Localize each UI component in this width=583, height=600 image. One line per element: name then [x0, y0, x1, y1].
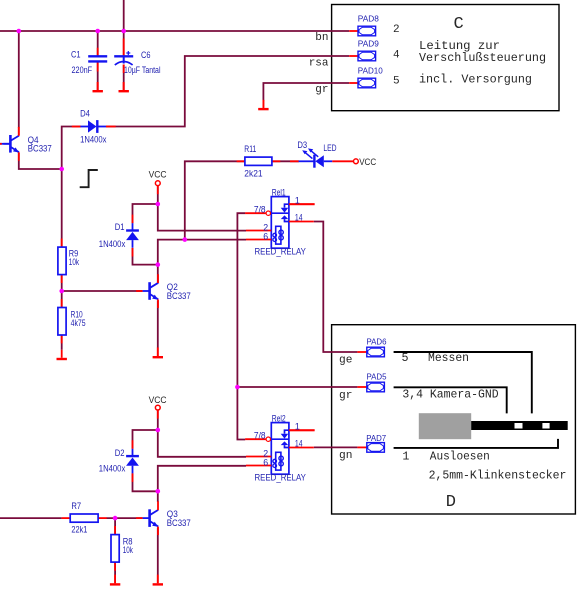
svg-text:Ausloesen: Ausloesen: [430, 450, 490, 464]
svg-text:D3: D3: [297, 140, 307, 150]
svg-text:1N400x: 1N400x: [99, 239, 126, 249]
svg-text:14: 14: [295, 439, 303, 449]
svg-text:4: 4: [393, 49, 400, 61]
svg-text:VCC: VCC: [359, 157, 376, 167]
svg-text:gr: gr: [339, 390, 352, 402]
svg-text:1N400x: 1N400x: [99, 464, 126, 474]
svg-text:rsa: rsa: [309, 58, 329, 70]
svg-text:bn: bn: [315, 32, 328, 44]
svg-text:D2: D2: [115, 448, 125, 458]
svg-text:2,5mm-Klinkenstecker: 2,5mm-Klinkenstecker: [429, 468, 567, 482]
svg-text:7/8: 7/8: [254, 204, 266, 214]
svg-text:gn: gn: [339, 450, 352, 462]
svg-text:PAD8: PAD8: [358, 14, 380, 23]
svg-text:BC337: BC337: [167, 518, 191, 528]
svg-text:2: 2: [393, 24, 400, 36]
svg-text:4k75: 4k75: [71, 318, 86, 328]
svg-text:R11: R11: [244, 144, 256, 154]
svg-text:5: 5: [402, 351, 409, 365]
svg-text:gr: gr: [315, 84, 328, 96]
svg-text:VCC: VCC: [149, 395, 167, 405]
svg-text:C1: C1: [71, 50, 81, 60]
svg-text:REED_RELAY: REED_RELAY: [255, 247, 307, 257]
svg-text:C6: C6: [141, 50, 151, 60]
svg-text:1: 1: [295, 195, 300, 205]
svg-text:Rel2: Rel2: [272, 414, 286, 424]
svg-text:PAD10: PAD10: [358, 66, 384, 75]
svg-text:3,4 Kamera-GND: 3,4 Kamera-GND: [402, 388, 498, 402]
svg-text:PAD9: PAD9: [358, 39, 380, 48]
svg-text:220nF: 220nF: [72, 65, 93, 75]
svg-text:C: C: [454, 15, 464, 34]
svg-text:PAD5: PAD5: [367, 373, 388, 382]
svg-text:PAD7: PAD7: [366, 434, 386, 443]
svg-text:D1: D1: [115, 222, 125, 232]
svg-text:1N400x: 1N400x: [80, 135, 107, 145]
svg-text:14: 14: [295, 213, 303, 223]
svg-text:incl. Versorgung: incl. Versorgung: [419, 72, 532, 86]
svg-text:Verschlußsteuerung: Verschlußsteuerung: [419, 51, 546, 65]
svg-text:BC337: BC337: [167, 291, 191, 301]
svg-text:1: 1: [295, 421, 300, 431]
svg-text:ge: ge: [339, 355, 352, 367]
svg-text:BC337: BC337: [28, 143, 52, 153]
svg-text:Rel1: Rel1: [272, 188, 286, 198]
svg-text:D: D: [446, 493, 456, 512]
svg-text:5: 5: [393, 75, 400, 87]
svg-text:1: 1: [402, 450, 409, 464]
svg-text:6: 6: [263, 458, 268, 468]
svg-text:REED_RELAY: REED_RELAY: [255, 473, 307, 483]
svg-text:PAD6: PAD6: [367, 338, 388, 347]
svg-text:10k: 10k: [69, 257, 80, 267]
svg-text:D4: D4: [80, 109, 90, 119]
svg-text:10k: 10k: [123, 545, 134, 555]
svg-text:7/8: 7/8: [254, 430, 266, 440]
svg-text:10µF Tantal: 10µF Tantal: [124, 65, 161, 75]
svg-text:Messen: Messen: [428, 351, 469, 365]
svg-text:6: 6: [263, 232, 268, 242]
svg-text:VCC: VCC: [149, 169, 167, 179]
svg-text:R7: R7: [71, 501, 81, 511]
svg-text:LED: LED: [323, 143, 336, 153]
svg-text:2k21: 2k21: [244, 169, 262, 179]
svg-text:22k1: 22k1: [71, 525, 87, 535]
